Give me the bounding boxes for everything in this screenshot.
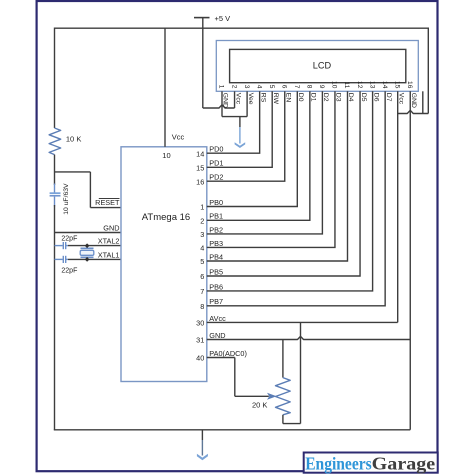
svg-text:20 K: 20 K: [252, 400, 267, 409]
svg-text:1: 1: [218, 85, 225, 89]
+5V supply symbol: [194, 17, 210, 19]
wire: LCD pin 11 to PB4: [207, 91, 348, 261]
wire: LCD pin 6 to PD2: [207, 91, 285, 181]
EngineersGarage logo: [304, 453, 438, 473]
wire: LCD pin16 GND down to bottom rail: [409, 91, 411, 430]
crystal X1: [86, 246, 88, 249]
svg-text:PB1: PB1: [209, 212, 223, 221]
wire: LCD pin 12 to PB5: [207, 91, 360, 276]
svg-text:D1: D1: [310, 93, 317, 102]
wire: pin1-pin3 gnd link: [222, 116, 247, 118]
wire: LCD pin3 Vee: [246, 91, 248, 116]
svg-text:PA0(ADC0): PA0(ADC0): [209, 349, 247, 358]
svg-text:30: 30: [196, 319, 204, 328]
wire: LCD pin 14 to PB7: [207, 91, 385, 305]
svg-text:GND: GND: [103, 223, 119, 232]
capacitor C1 10 uF/63V (electrolytic): [54, 184, 56, 193]
wire: LCD pin1 GND: [221, 91, 223, 116]
svg-text:XTAL2: XTAL2: [98, 236, 120, 245]
svg-text:Vcc: Vcc: [172, 133, 185, 142]
wire: pot bottom to AVcc (hops GND wire): [282, 415, 284, 424]
svg-text:5: 5: [268, 85, 275, 89]
svg-text:5: 5: [200, 257, 204, 266]
svg-text:D0: D0: [297, 93, 304, 102]
wire: LCD pin2 Vcc: [234, 91, 236, 108]
svg-text:6: 6: [200, 272, 204, 281]
wire: LCD pin 5 to PD1: [207, 91, 272, 167]
svg-text:D5: D5: [360, 93, 367, 102]
wire: XTAL2 pin 12: [68, 245, 121, 247]
wire: LCD pin 7 to PB0: [207, 91, 297, 206]
junction dot XTAL1/crystal: [85, 257, 90, 262]
wire: PA0(ADC0) pin40 to pot wiper: [207, 357, 235, 359]
svg-text:PB0: PB0: [209, 198, 223, 207]
svg-text:2: 2: [200, 217, 204, 226]
capacitor C3 22pF: [62, 256, 64, 263]
svg-text:7: 7: [200, 287, 204, 296]
svg-text:4: 4: [255, 85, 262, 89]
svg-text:XTAL1: XTAL1: [98, 250, 120, 259]
svg-text:14: 14: [381, 81, 388, 89]
resistor R1 10K: [49, 128, 61, 155]
svg-text:GND: GND: [410, 93, 417, 108]
svg-text:8: 8: [200, 302, 204, 311]
wire: +5V stem down to LCD Vcc pin2 (hops pin1): [202, 28, 204, 108]
svg-text:PB3: PB3: [209, 239, 223, 248]
svg-text:D7: D7: [385, 93, 392, 102]
wire: LCD pin 10 to PB3: [207, 91, 335, 247]
wire: +5V down right side to LCD pin15 Vcc: [427, 28, 429, 114]
svg-text:10 K: 10 K: [66, 135, 81, 144]
svg-text:PB2: PB2: [209, 225, 223, 234]
wire: GND pin31 to LCD pin16 column (hops pot wire): [207, 336, 410, 339]
svg-text:2: 2: [230, 85, 237, 89]
wire: LCD pin 13 to PB6: [207, 91, 373, 291]
wire: LCD pin 4 to PD0: [207, 91, 260, 153]
svg-text:10 uF/63V: 10 uF/63V: [63, 183, 70, 215]
svg-text:9: 9: [318, 85, 325, 89]
wire: XTAL1 pin 13: [68, 258, 121, 260]
svg-text:6: 6: [280, 85, 287, 89]
junction dot XTAL2/crystal: [85, 243, 90, 248]
svg-text:PD2: PD2: [209, 173, 223, 182]
svg-text:RW: RW: [272, 93, 279, 105]
wire: 10K to reset node: [54, 155, 56, 185]
svg-text:31: 31: [196, 336, 204, 345]
capacitor C2 22pF: [62, 242, 64, 249]
wire: bottom ground rail: [54, 429, 410, 431]
svg-text:22pF: 22pF: [61, 235, 77, 242]
svg-text:EngineersGarage: EngineersGarage: [305, 453, 435, 473]
wire: LCD pin 8 to PB1: [207, 91, 310, 220]
svg-text:PB7: PB7: [209, 297, 223, 306]
svg-text:PB6: PB6: [209, 282, 223, 291]
svg-text:4: 4: [200, 244, 204, 253]
tick: LCD pin16 right boundary: [422, 91, 424, 113]
wire: +5V top rail: [55, 27, 429, 29]
svg-text:PD0: PD0: [209, 145, 223, 154]
svg-text:PD1: PD1: [209, 159, 223, 168]
svg-text:LCD: LCD: [313, 61, 332, 71]
svg-text:13: 13: [368, 81, 375, 89]
svg-text:40: 40: [196, 354, 204, 363]
svg-text:RS: RS: [259, 93, 266, 103]
svg-text:AVcc: AVcc: [209, 314, 226, 323]
wire: reset node branch: [55, 171, 91, 173]
wire: pot top to GND wire: [282, 340, 284, 378]
wire: GND pin 11: [55, 232, 122, 234]
potentiometer R2 20K: [276, 378, 291, 415]
svg-text:EN: EN: [284, 93, 291, 103]
svg-text:10: 10: [331, 81, 338, 89]
pot wiper arrow: [267, 393, 277, 400]
svg-text:10: 10: [162, 151, 170, 160]
IC U1 ATmega 16: [121, 147, 207, 382]
svg-text:14: 14: [196, 149, 204, 158]
svg-text:D2: D2: [322, 93, 329, 102]
wire: LCD pin15 Vcc down to AVcc: [397, 91, 399, 322]
wire: LCD pin 9 to PB2: [207, 91, 323, 234]
LCD screen: [230, 49, 406, 82]
svg-text:D4: D4: [347, 93, 354, 102]
svg-text:1: 1: [200, 203, 204, 212]
ground arrow (LCD): [239, 117, 241, 127]
svg-text:+5 V: +5 V: [215, 14, 231, 23]
wire: Vcc drop to pin 10: [164, 28, 166, 147]
svg-text:15: 15: [393, 81, 400, 89]
svg-text:8: 8: [306, 85, 313, 89]
svg-text:16: 16: [406, 81, 413, 89]
svg-text:12: 12: [356, 81, 363, 89]
svg-text:RESET: RESET: [95, 198, 120, 207]
svg-text:3: 3: [200, 230, 204, 239]
svg-text:GND: GND: [209, 331, 225, 340]
svg-text:Vcc: Vcc: [397, 93, 404, 105]
svg-text:3: 3: [243, 85, 250, 89]
wire: left ground column: [54, 205, 56, 430]
svg-text:22pF: 22pF: [61, 268, 77, 275]
ground arrow (bottom): [201, 430, 203, 440]
wire: left +5V drop to 10K: [54, 28, 56, 129]
svg-text:Vcc: Vcc: [234, 93, 241, 105]
svg-text:D6: D6: [372, 93, 379, 102]
svg-text:15: 15: [196, 164, 204, 173]
svg-text:11: 11: [343, 82, 350, 89]
svg-text:7: 7: [293, 85, 300, 89]
LCD module outline: [216, 41, 418, 92]
svg-text:PB5: PB5: [209, 267, 223, 276]
svg-text:D3: D3: [335, 93, 342, 102]
svg-text:16: 16: [196, 177, 204, 186]
svg-text:Vee: Vee: [247, 93, 254, 105]
svg-text:ATmega 16: ATmega 16: [142, 212, 190, 223]
wire: AVcc pin30 to LCD pin15 column: [207, 321, 398, 323]
svg-text:PB4: PB4: [209, 252, 223, 261]
